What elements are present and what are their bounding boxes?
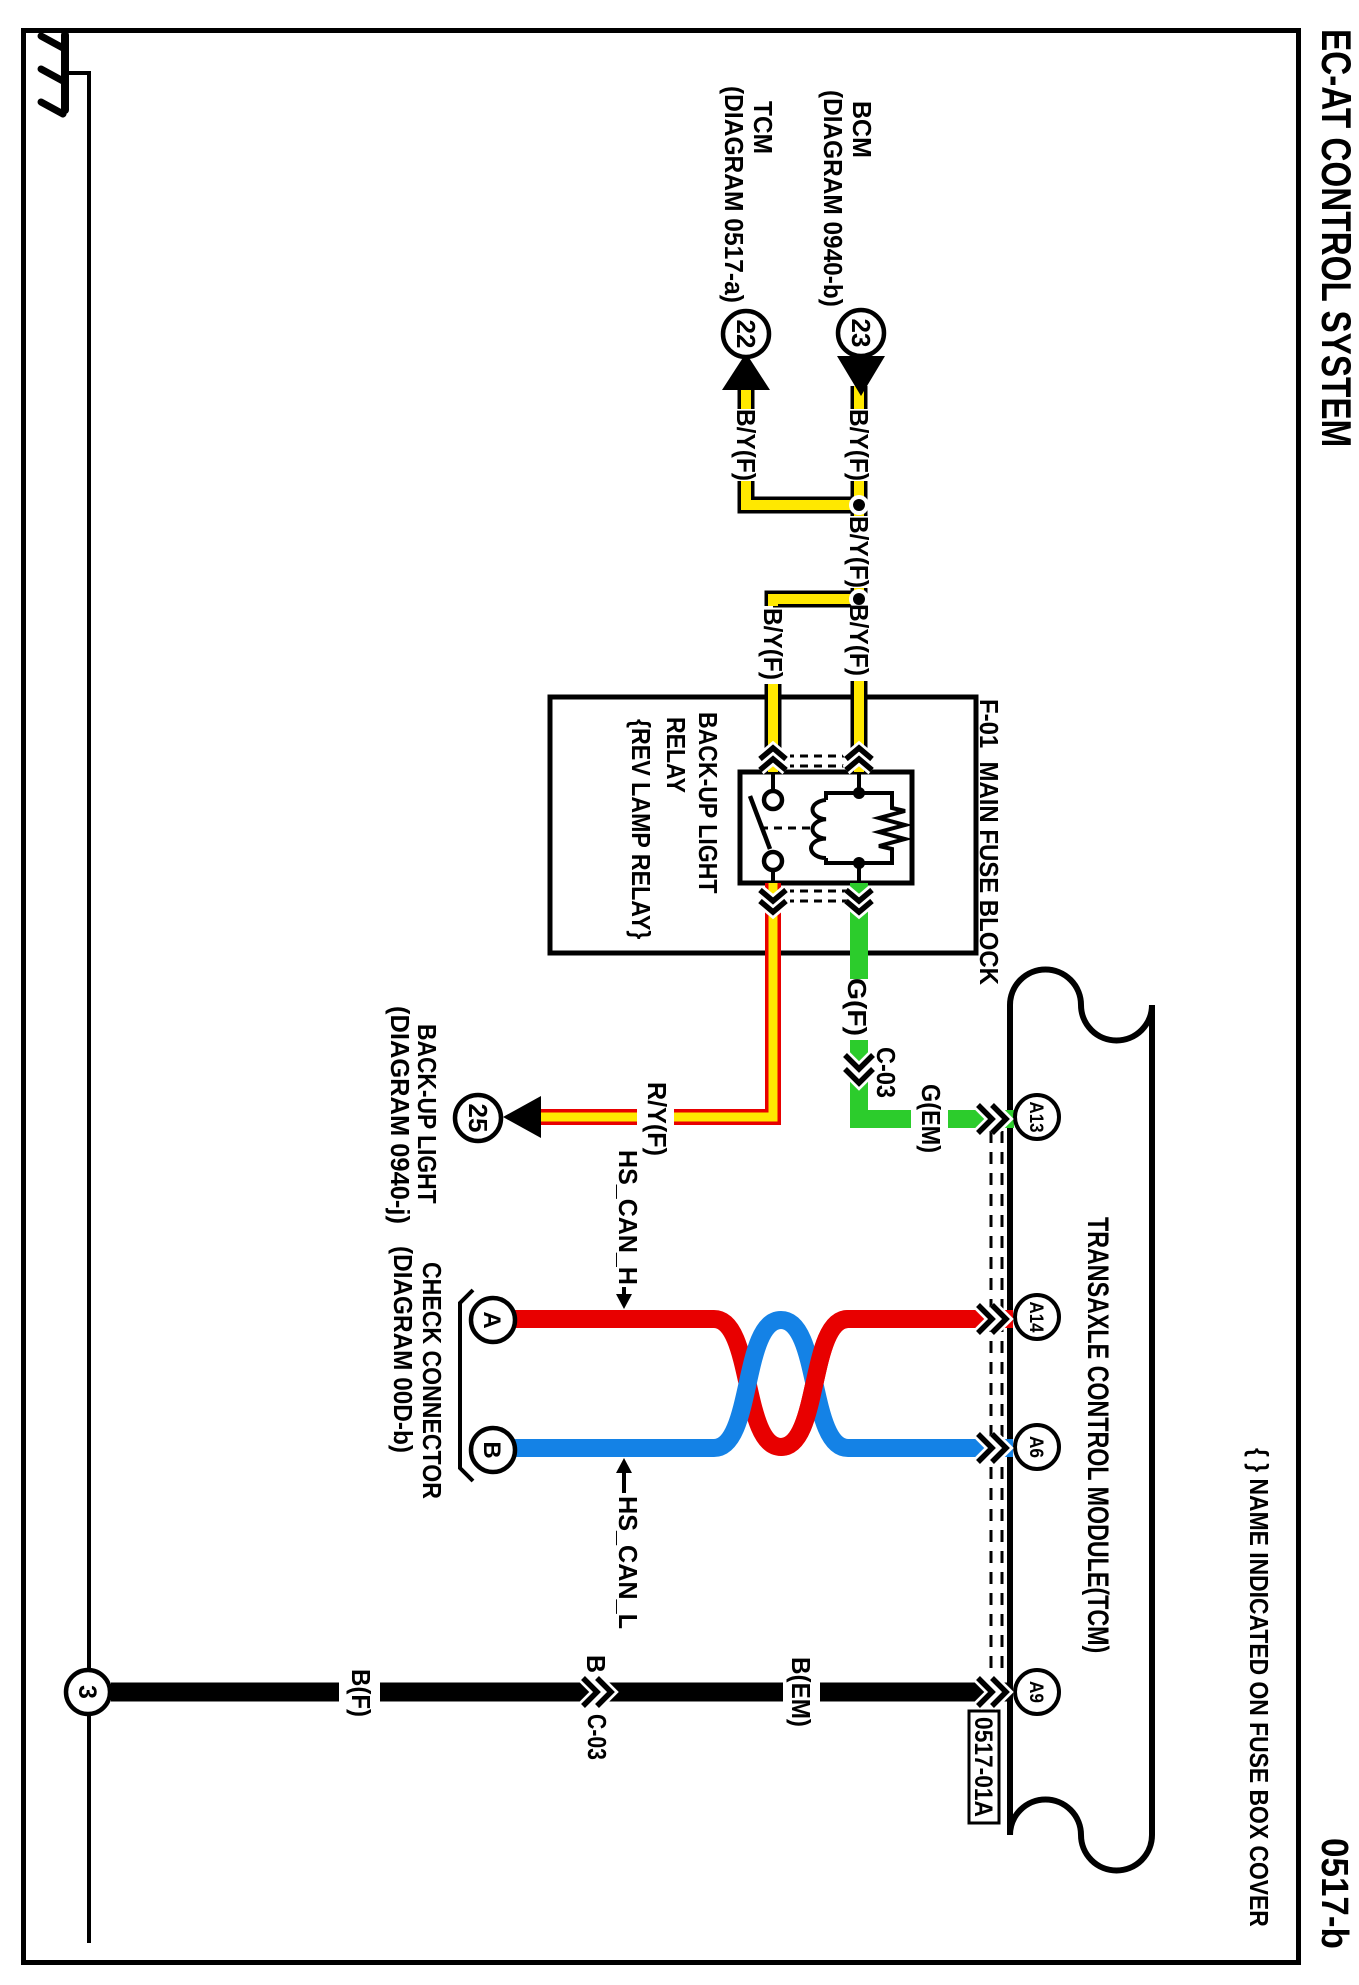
svg-text:A6: A6 [1026, 1436, 1047, 1458]
svg-text:B/Y(F): B/Y(F) [731, 409, 760, 481]
svg-text:RELAY: RELAY [661, 717, 690, 793]
relay switch contact circle right [764, 852, 782, 870]
wire R/Y red casing [541, 883, 773, 1117]
svg-text:3: 3 [73, 1685, 101, 1699]
ground symbol [41, 35, 91, 114]
relay switch output to edge [771, 869, 775, 883]
relay connector dash line right 2 [790, 900, 850, 903]
wire red over blue at upper crossing [781, 1319, 848, 1447]
svg-text:C-03: C-03 [581, 1714, 609, 1760]
svg-text:(DIAGRAM 0940-b): (DIAGRAM 0940-b) [818, 90, 847, 307]
relay coil branch lower with coil bumps [811, 793, 859, 863]
fuse block F-01 box [550, 697, 976, 953]
junction dot 2 [853, 593, 865, 605]
chevrons on C wire at relay left pointing left [760, 748, 786, 770]
relay connector dash line left 2 [790, 765, 850, 768]
relay switch wire C entry [771, 772, 775, 792]
svg-text:F-01 MAIN FUSE BLOCK: F-01 MAIN FUSE BLOCK [974, 699, 1003, 985]
svg-text:B(EM): B(EM) [786, 1657, 815, 1727]
svg-text:BACK-UP LIGHT: BACK-UP LIGHT [412, 1024, 441, 1204]
svg-text:(DIAGRAM 0940-j): (DIAGRAM 0940-j) [385, 1006, 413, 1224]
svg-text:(DIAGRAM 00D-b): (DIAGRAM 00D-b) [388, 1246, 417, 1453]
relay resistor branch upper zigzag [859, 793, 905, 863]
svg-text:HS_CAN_L: HS_CAN_L [613, 1496, 641, 1629]
svg-text:25: 25 [463, 1104, 493, 1133]
svg-text:TCM: TCM [748, 101, 777, 154]
HS_CAN_L arrow [622, 1471, 626, 1493]
check connector pin A circle [471, 1298, 515, 1342]
chevrons on RY wire at relay right pointing right [760, 890, 786, 912]
svg-text:B/Y(F): B/Y(F) [758, 608, 787, 680]
svg-text:B: B [478, 1441, 505, 1458]
arrow to 22 triangle [722, 353, 770, 390]
arrow to 25 triangle [503, 1096, 541, 1138]
chevrons on black wire below A9 pointing up [978, 1678, 1006, 1706]
relay coil node dot left [853, 787, 865, 799]
TCM transaxle control module band: top edge [1149, 1005, 1155, 1835]
TCM connector circle A9 [1015, 1670, 1059, 1714]
svg-text:(DIAGRAM 0517-a): (DIAGRAM 0517-a) [719, 86, 748, 303]
svg-text:B/Y(F): B/Y(F) [844, 409, 873, 481]
svg-text:{REV LAMP RELAY}: {REV LAMP RELAY} [626, 719, 654, 940]
junction dot ring 1 [849, 495, 869, 515]
svg-text:A14: A14 [1026, 1302, 1047, 1333]
TCM connector circle A13 [1015, 1095, 1059, 1139]
wire R(EM) red CAN-H vertical with twist [513, 1319, 1013, 1447]
relay connector dash line right 1 [790, 890, 850, 893]
relay switch arm [750, 796, 770, 849]
svg-text:B(F): B(F) [346, 1669, 375, 1717]
relay coil output to edge [857, 863, 861, 883]
chevrons on green wire at relay right pointing right [846, 890, 872, 912]
relay switch contact circle left [764, 791, 782, 809]
relay connector dash line left 1 [790, 755, 850, 758]
svg-text:CHECK CONNECTOR: CHECK CONNECTOR [417, 1262, 446, 1499]
relay K box back-up light relay [740, 772, 912, 883]
circle 25 [455, 1095, 501, 1141]
svg-text:0517-b: 0517-b [1314, 1838, 1357, 1949]
svg-text:22: 22 [731, 320, 761, 349]
svg-text:C-03: C-03 [871, 1047, 899, 1098]
check connector bracket [460, 1290, 473, 1481]
arrow from 23 triangle [837, 356, 885, 396]
wire G green from relay to corner and up to A13 [859, 883, 1014, 1119]
svg-text:BCM: BCM [847, 101, 876, 158]
chevrons on E wire at relay left pointing left [846, 748, 872, 770]
circle 22 [723, 311, 769, 357]
TCM connector circle A14 [1015, 1295, 1059, 1339]
svg-text:HS_CAN_H: HS_CAN_H [613, 1150, 642, 1285]
wire ground rail thin [87, 73, 91, 1943]
TCM connector circle A6 [1015, 1425, 1059, 1469]
connector label box 0517-01A [969, 1711, 999, 1823]
svg-text:G(EM): G(EM) [916, 1084, 944, 1153]
TCM band left squiggle edge [1010, 970, 1152, 1041]
TCM band bottom edge [1007, 1005, 1013, 1835]
svg-text:A: A [478, 1311, 505, 1328]
wire L(EM) blue CAN-L vertical with twist [513, 1320, 1013, 1448]
junction dot ring 2 [849, 589, 869, 609]
svg-text:A9: A9 [1026, 1681, 1047, 1703]
chevrons on blue wire below A6 pointing up [978, 1434, 1006, 1462]
svg-text:BACK-UP LIGHT: BACK-UP LIGHT [693, 712, 722, 893]
chevrons on green wire below A13 pointing up [978, 1105, 1006, 1133]
svg-text:R/Y(F): R/Y(F) [642, 1082, 670, 1156]
svg-text:B: B [581, 1655, 610, 1673]
wire B/Y yellow core [746, 386, 859, 772]
svg-text:{ } NAME INDICATED ON FUSE BOX: { } NAME INDICATED ON FUSE BOX COVER [1244, 1448, 1273, 1927]
chevrons on red wire below A14 pointing up [978, 1305, 1006, 1333]
TCM band right squiggle edge [1010, 1800, 1152, 1871]
relay coil terminal wire E entry [857, 772, 861, 789]
svg-text:B/Y(F): B/Y(F) [844, 516, 873, 588]
relay mechanical link dashed [763, 827, 810, 830]
HS_CAN_H arrow [622, 1287, 626, 1296]
svg-text:0517-01A: 0517-01A [969, 1717, 997, 1817]
chevrons C-03 on black wire pointing up [583, 1678, 611, 1706]
wire B/Y yellow black casing [746, 386, 859, 772]
junction dot 1 [853, 499, 865, 511]
wire R/Y yellow core [541, 883, 773, 1117]
check connector pin B circle [471, 1428, 515, 1472]
relay coil node dot right [853, 857, 865, 869]
chevrons C-03 on green wire pointing right [845, 1055, 873, 1083]
svg-text:EC-AT CONTROL SYSTEM: EC-AT CONTROL SYSTEM [1312, 29, 1359, 447]
TCM connector dashed boundary line 1 [1001, 1110, 1004, 1674]
wire B thick black vertical [111, 1683, 1011, 1702]
circle 3 ground [66, 1670, 110, 1714]
svg-text:A13: A13 [1026, 1102, 1047, 1133]
circle 23 [838, 310, 884, 356]
svg-text:G(F): G(F) [842, 978, 872, 1036]
TCM connector dashed boundary line 2 [990, 1110, 993, 1674]
svg-text:TRANSAXLE CONTROL MODULE(TCM): TRANSAXLE CONTROL MODULE(TCM) [1081, 1217, 1115, 1653]
svg-text:B/Y(F): B/Y(F) [844, 604, 873, 676]
svg-text:23: 23 [846, 319, 876, 348]
